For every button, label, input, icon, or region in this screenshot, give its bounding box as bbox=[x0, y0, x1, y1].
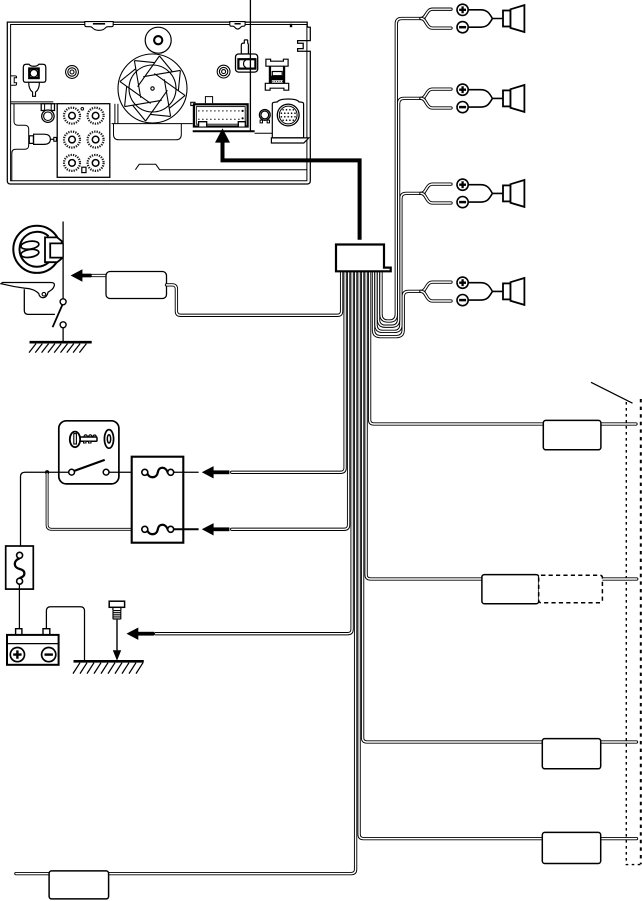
speaker fork rear right bbox=[421, 282, 451, 301]
wire branch 3 (right) bbox=[363, 271, 637, 742]
label box wire 1 bbox=[543, 420, 601, 449]
bolt arrow down bbox=[113, 620, 121, 661]
wire to fuse arrow 1 bbox=[232, 271, 345, 472]
side bracket bbox=[29, 134, 56, 144]
thick lead wire to harness connector bbox=[215, 128, 360, 239]
plus terminal rear left bbox=[457, 179, 468, 190]
arrow to fuse 1 wire bbox=[202, 466, 230, 478]
ground bolt bbox=[109, 601, 124, 619]
head unit internal panel lines bbox=[11, 24, 307, 181]
wire battery positive bbox=[46, 607, 84, 661]
speaker wire front left bbox=[381, 19, 424, 322]
speaker front right bbox=[503, 85, 524, 112]
minus terminal front right bbox=[457, 102, 468, 113]
plus terminal rear right bbox=[457, 277, 468, 288]
antenna mast bbox=[1, 283, 55, 298]
cooling fan bbox=[118, 54, 187, 123]
plus terminal front right bbox=[457, 84, 468, 95]
head unit rear panel chassis outline bbox=[7, 22, 310, 184]
multipin harness connector bbox=[191, 102, 255, 131]
main fuse holder bbox=[6, 546, 34, 589]
callout line to connector bbox=[249, 0, 251, 131]
wire branch 1 (right) bbox=[370, 271, 636, 424]
callout diagonal line bbox=[591, 382, 633, 403]
speaker fork front left bbox=[421, 9, 451, 28]
plus terminal front left bbox=[457, 4, 468, 15]
speaker fork front right bbox=[421, 89, 451, 108]
arrow to motor antenna bbox=[71, 269, 92, 281]
speaker wire rear right bbox=[374, 271, 425, 336]
RCA preout jacks bbox=[57, 104, 110, 178]
mast link wire bbox=[24, 289, 55, 314]
dotted boundary outer bbox=[640, 399, 642, 864]
minus terminal rear left bbox=[457, 197, 468, 208]
ground (battery) bbox=[73, 661, 144, 673]
speaker leads rear left bbox=[468, 185, 503, 202]
wire fuse to battery bbox=[18, 584, 20, 629]
antenna jack bracket bbox=[23, 64, 46, 96]
P.CONT connector box bbox=[106, 272, 167, 299]
fuse 2 bbox=[142, 525, 199, 534]
ignition key icon bbox=[70, 432, 97, 448]
center bracket bbox=[236, 40, 258, 72]
label box wire 4 bbox=[542, 832, 600, 863]
keyhole icon bbox=[104, 430, 113, 449]
small round connector bbox=[259, 110, 270, 123]
wire to fuse arrow 2 bbox=[232, 271, 349, 529]
wire to bottom-left bbox=[16, 271, 356, 873]
ignition switch contacts bbox=[69, 460, 109, 475]
antenna mast line bbox=[62, 222, 64, 301]
panel screw left bbox=[66, 66, 79, 79]
P.CONT wire stub bbox=[92, 274, 106, 277]
fuse box bbox=[132, 457, 184, 543]
panel screw right bbox=[217, 65, 230, 78]
label box wire 2 bbox=[482, 575, 539, 604]
fuse 1 bbox=[142, 468, 199, 477]
speaker rear right bbox=[503, 278, 524, 305]
wire branch 2 (right) bbox=[366, 271, 637, 579]
junction node bbox=[45, 470, 49, 474]
wire to battery ground arrow bbox=[156, 271, 353, 633]
label box wire 3 bbox=[542, 739, 600, 769]
arrow to fuse 2 wire bbox=[202, 523, 230, 535]
speaker fork rear left bbox=[421, 184, 451, 203]
ground (antenna) bbox=[29, 342, 92, 352]
speaker rear left bbox=[503, 180, 524, 207]
antenna switch bbox=[53, 299, 67, 341]
battery bbox=[7, 629, 59, 665]
screw boss top bbox=[145, 27, 171, 53]
wire ignition to fuse 1 bbox=[109, 471, 142, 473]
wire junction to fuse 2 bbox=[47, 474, 141, 530]
harness connector block bbox=[336, 245, 391, 272]
wire battery feed bbox=[21, 472, 69, 546]
label box bottom left bbox=[49, 871, 109, 899]
speaker wire front right bbox=[379, 98, 425, 326]
speaker wire rear left bbox=[376, 193, 424, 331]
wire branch 4 (bottom right) bbox=[359, 271, 636, 838]
round connector bbox=[41, 104, 54, 123]
minus terminal rear right bbox=[457, 295, 468, 306]
speaker leads front left bbox=[468, 10, 503, 27]
antenna control wire bbox=[167, 271, 342, 315]
minus terminal front left bbox=[457, 22, 468, 33]
dashed extension box wire 2 bbox=[539, 575, 603, 603]
ignition switch box bbox=[59, 421, 119, 484]
speaker leads front right bbox=[468, 90, 503, 107]
speaker leads rear right bbox=[468, 283, 503, 300]
speaker front left bbox=[503, 5, 524, 32]
motor antenna bbox=[13, 226, 63, 273]
arrow to ground bolt bbox=[127, 628, 155, 640]
small bracket connector bbox=[265, 59, 288, 90]
DIN connector bbox=[271, 99, 308, 143]
dotted boundary inner bbox=[626, 402, 642, 865]
